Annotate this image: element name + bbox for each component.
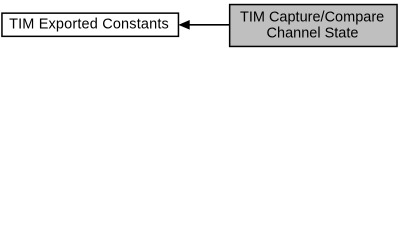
svg-text:TIM Exported Constants: TIM Exported Constants — [9, 17, 169, 33]
edge arrow (points from right node to left node) — [179, 21, 229, 29]
node: TIM Capture/Compare Channel State (current page, grey) — [230, 5, 397, 47]
node: TIM Exported Constants — [2, 13, 179, 36]
svg-text:Channel State: Channel State — [267, 26, 359, 42]
svg-text:TIM Capture/Compare: TIM Capture/Compare — [240, 10, 384, 26]
